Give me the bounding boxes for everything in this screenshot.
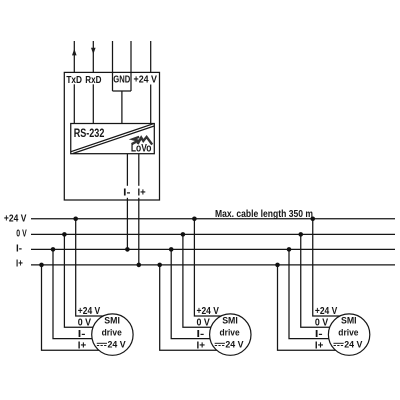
drive 3 circle M3 [328,314,369,355]
bus +24V [31,218,395,220]
drive circle texts [102,316,363,351]
wire GND right [130,41,132,91]
svg-text:0 V: 0 V [315,318,328,329]
svg-text:SMI: SMI [104,316,120,327]
interface box [64,72,159,200]
drive 2 circle M2 [210,314,251,355]
bus I+ [31,264,395,266]
svg-text:drive: drive [220,327,240,338]
wire I+ from converter [138,154,140,186]
svg-text:I+: I+ [138,188,146,199]
arrow TxD up [72,49,77,56]
junction dots bus +24V [39,217,315,268]
svg-text:GND: GND [113,75,130,86]
svg-text:I+: I+ [16,259,23,270]
svg-text:+24 V: +24 V [134,75,158,86]
wire drive3 +24V drop [313,219,349,316]
svg-text:0 V: 0 V [197,318,210,329]
wire GND bracket [113,90,132,92]
wire drive1 0V drop [64,234,112,327]
svg-text:RS-232: RS-232 [74,126,105,140]
wire drive2 I+ drop [160,265,231,350]
svg-text:LoVo: LoVo [131,142,152,154]
svg-text:I+: I+ [315,341,324,352]
wire RxD vertical [92,41,94,73]
svg-text:drive: drive [102,327,122,338]
svg-text:SMI: SMI [222,316,238,327]
DC symbol drive2 [215,342,225,344]
svg-text:Max. cable length 350 m: Max. cable length 350 m [215,209,313,220]
junction dots bus I+ [39,263,44,268]
svg-text:I+: I+ [197,341,206,352]
drive 2 wiring [160,219,231,350]
bus 0V [31,233,395,235]
wire TxD vertical [73,41,75,73]
arrow RxD down [91,48,96,55]
DC symbol drive1 [97,343,344,345]
wire drive1 +24V drop [76,219,113,316]
svg-text:I+: I+ [78,341,87,352]
wire GND center drop [121,91,123,124]
svg-text:I-: I- [123,188,131,199]
wire drive1 I+ drop [42,265,113,350]
drive 1 labels [78,306,338,352]
wire drive1 I- drop [53,249,112,338]
svg-text:RxD: RxD [85,75,101,86]
drive 3 wiring [278,219,350,350]
drive 1 wiring [42,219,113,350]
DC symbol drive3 [333,342,343,344]
svg-text:I-: I- [315,329,323,340]
svg-text:0 V: 0 V [78,318,91,329]
svg-text:+24 V: +24 V [78,306,101,317]
wire +24V vertical [150,41,152,73]
svg-text:24 V: 24 V [108,339,127,350]
wire drive2 I- drop [171,249,230,338]
svg-text:I-: I- [16,244,23,255]
diagonal divider lower [73,126,154,154]
svg-text:+24 V: +24 V [197,306,220,317]
svg-text:I-: I- [78,329,86,340]
wire I- from converter [126,154,128,186]
wire drive3 I+ drop [278,265,350,350]
wire drive3 I- drop [289,249,349,338]
svg-text:+24 V: +24 V [315,306,338,317]
logo SMI zigzag [132,137,153,145]
svg-text:+24 V: +24 V [4,214,27,225]
svg-text:drive: drive [338,327,358,338]
wire drive2 0V drop [183,234,230,327]
svg-text:SMI: SMI [341,316,357,327]
junction dots bus I- [51,247,56,252]
drive 1 circle M1 [92,314,133,355]
svg-text:24 V: 24 V [344,339,363,350]
wire drive2 +24V drop [194,219,230,316]
svg-text:I-: I- [197,329,205,340]
junction dots bus 0V [62,232,67,237]
converter box U1 RS-232/LoVo [71,124,155,154]
svg-text:TxD: TxD [66,75,82,86]
svg-text:0 V: 0 V [16,229,26,240]
diagonal divider upper [71,124,154,152]
wire drive3 0V drop [301,234,349,327]
svg-text:24 V: 24 V [225,339,244,350]
wire GND left [112,41,114,91]
bus I- [31,248,395,250]
